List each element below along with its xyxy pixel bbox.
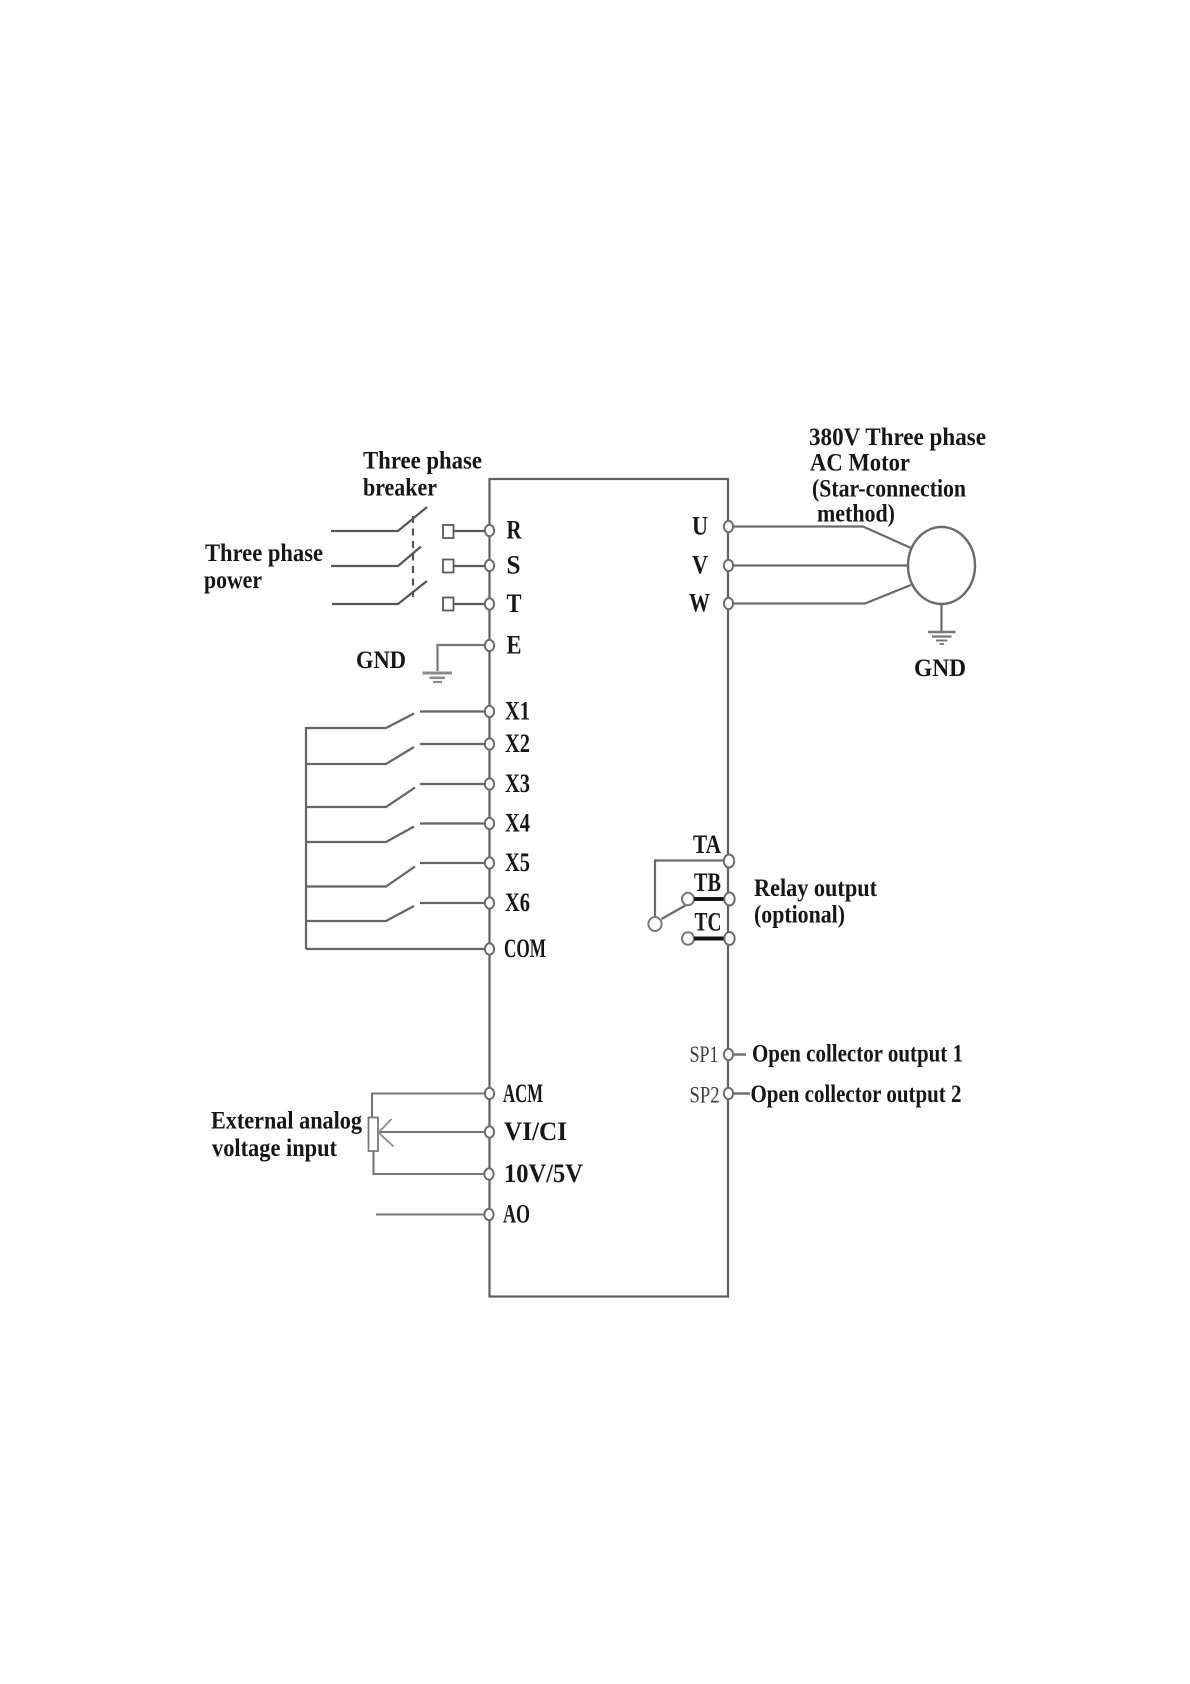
terminal U xyxy=(724,521,733,532)
svg-text:E: E xyxy=(507,631,522,660)
svg-text:R: R xyxy=(507,516,522,545)
caption external analog voltage input xyxy=(211,1108,362,1163)
relay TC left contact circle xyxy=(682,932,694,945)
digital input switch X4 xyxy=(306,824,485,843)
svg-text:VI/CI: VI/CI xyxy=(504,1117,567,1146)
wire motor to ground xyxy=(940,604,942,631)
svg-text:breaker: breaker xyxy=(363,475,437,502)
svg-text:TC: TC xyxy=(695,908,722,937)
label R xyxy=(507,516,522,545)
svg-text:power: power xyxy=(204,567,262,594)
label E xyxy=(507,631,522,660)
label SP2 xyxy=(690,1083,720,1108)
terminal TB xyxy=(724,893,734,906)
caption open collector output 1 xyxy=(752,1041,963,1068)
wire W to motor xyxy=(732,585,911,604)
three phase power input wire R xyxy=(331,507,427,531)
relay TC contact bar xyxy=(694,937,726,941)
terminal TC xyxy=(724,932,734,945)
switch common bus xyxy=(305,727,307,949)
svg-text:TB: TB xyxy=(694,868,721,897)
svg-text:S: S xyxy=(507,551,521,580)
svg-text:voltage input: voltage input xyxy=(212,1135,338,1162)
svg-text:SP1: SP1 xyxy=(690,1042,719,1067)
relay TB left contact circle xyxy=(682,893,694,906)
SP1 stub wire xyxy=(734,1053,746,1055)
svg-text:(Star-connection: (Star-connection xyxy=(812,476,966,503)
digital input switch X1 xyxy=(306,712,485,729)
label U xyxy=(692,512,708,541)
terminal AO xyxy=(484,1209,493,1220)
ground symbol (motor) xyxy=(928,632,956,644)
svg-text:T: T xyxy=(507,589,522,618)
terminal V xyxy=(724,560,733,571)
caption 380V motor xyxy=(809,424,986,528)
svg-text:W: W xyxy=(689,589,710,618)
caption open collector output 2 xyxy=(751,1081,962,1108)
breaker gang dashed link xyxy=(412,516,414,597)
label TA xyxy=(693,830,721,859)
wire bus to COM terminal xyxy=(306,948,486,950)
three phase power input wire S xyxy=(331,547,421,567)
label T xyxy=(507,589,522,618)
wire square to terminal R xyxy=(454,530,487,532)
label SP1 xyxy=(690,1042,719,1067)
terminal W xyxy=(724,598,733,609)
terminal S xyxy=(485,560,494,571)
label X2 xyxy=(505,729,530,758)
digital input switch X2 xyxy=(306,744,485,764)
svg-text:10V/5V: 10V/5V xyxy=(504,1159,583,1188)
terminal X4 xyxy=(485,818,494,829)
wiper wire VI/CI with arrow xyxy=(379,1119,487,1147)
terminal TA xyxy=(724,855,734,868)
svg-text:X4: X4 xyxy=(505,809,530,838)
wire AO xyxy=(376,1213,486,1215)
svg-text:COM: COM xyxy=(504,934,546,963)
label X3 xyxy=(505,769,530,798)
svg-text:TA: TA xyxy=(693,830,721,859)
terminal X3 xyxy=(485,778,494,789)
terminal VI/CI xyxy=(485,1126,494,1137)
three phase power input wire T xyxy=(332,581,427,604)
terminal T xyxy=(485,598,494,609)
caption GND left xyxy=(356,647,406,674)
svg-text:Open collector output 2: Open collector output 2 xyxy=(751,1081,962,1108)
terminal 10V/5V xyxy=(484,1168,493,1179)
svg-text:(optional): (optional) xyxy=(754,902,845,929)
svg-text:ACM: ACM xyxy=(503,1079,543,1108)
label X4 xyxy=(505,809,530,838)
svg-text:Three phase: Three phase xyxy=(363,448,482,475)
terminal SP2 xyxy=(724,1088,733,1099)
svg-text:X3: X3 xyxy=(505,769,530,798)
label V xyxy=(692,551,708,580)
svg-text:X6: X6 xyxy=(505,888,530,917)
relay TB contact bar xyxy=(694,897,726,901)
inverter main box U1 xyxy=(490,479,729,1297)
label 10V/5V xyxy=(504,1159,583,1188)
terminal X1 xyxy=(485,706,494,717)
wire potentiometer bottom to 10V/5V xyxy=(374,1151,487,1174)
svg-text:Relay output: Relay output xyxy=(754,875,878,902)
svg-text:V: V xyxy=(692,551,708,580)
terminal ACM xyxy=(485,1088,494,1099)
terminal R xyxy=(485,525,494,536)
svg-text:SP2: SP2 xyxy=(690,1083,720,1108)
motor M1 xyxy=(908,527,975,604)
svg-text:380V Three phase: 380V Three phase xyxy=(809,424,986,451)
relay pole arm xyxy=(662,905,688,920)
digital input switch X5 xyxy=(306,863,485,887)
label COM xyxy=(504,934,546,963)
svg-text:AC Motor: AC Motor xyxy=(810,450,910,477)
potentiometer RP1 xyxy=(369,1118,379,1152)
label X1 xyxy=(505,697,530,726)
wire U to motor xyxy=(732,527,911,549)
terminal X2 xyxy=(485,738,494,749)
svg-text:AO: AO xyxy=(503,1200,530,1229)
label X5 xyxy=(505,848,530,877)
caption three phase power xyxy=(204,540,323,594)
breaker terminal block square T row xyxy=(443,598,454,611)
wire ACM to potentiometer top xyxy=(372,1094,486,1118)
terminal E xyxy=(485,640,494,651)
breaker terminal block square R row xyxy=(443,525,454,538)
terminal X6 xyxy=(485,897,494,908)
label TC xyxy=(695,908,722,937)
wire square to terminal T xyxy=(454,603,487,605)
terminal X5 xyxy=(485,857,494,868)
terminal SP1 xyxy=(724,1049,733,1060)
label TB xyxy=(694,868,721,897)
relay pole contact circle xyxy=(648,917,661,931)
digital input switch X3 xyxy=(306,784,485,807)
wire V to motor xyxy=(732,564,909,566)
svg-text:GND: GND xyxy=(356,647,406,674)
wire square to terminal S xyxy=(454,565,487,567)
label AO xyxy=(503,1200,530,1229)
wire TA to relay pole xyxy=(655,861,723,917)
breaker terminal block square S row xyxy=(443,560,454,573)
caption GND motor xyxy=(914,655,966,682)
ground symbol (E) xyxy=(423,673,453,682)
terminal COM xyxy=(485,943,494,954)
caption relay output xyxy=(754,875,878,929)
label VI/CI xyxy=(504,1117,567,1146)
svg-text:X5: X5 xyxy=(505,848,530,877)
svg-text:Open collector output 1: Open collector output 1 xyxy=(752,1041,963,1068)
label X6 xyxy=(505,888,530,917)
SP2 stub wire xyxy=(734,1092,750,1094)
svg-text:X1: X1 xyxy=(505,697,530,726)
label S xyxy=(507,551,521,580)
svg-text:U: U xyxy=(692,512,708,541)
svg-text:GND: GND xyxy=(914,655,966,682)
caption three phase breaker xyxy=(363,448,482,502)
svg-text:External analog: External analog xyxy=(211,1108,362,1135)
svg-text:method): method) xyxy=(817,501,895,528)
digital input switch X6 xyxy=(306,903,485,921)
label W xyxy=(689,589,710,618)
svg-text:Three phase: Three phase xyxy=(205,540,323,567)
svg-text:X2: X2 xyxy=(505,729,530,758)
wire terminal E to ground xyxy=(438,645,487,671)
label ACM xyxy=(503,1079,543,1108)
